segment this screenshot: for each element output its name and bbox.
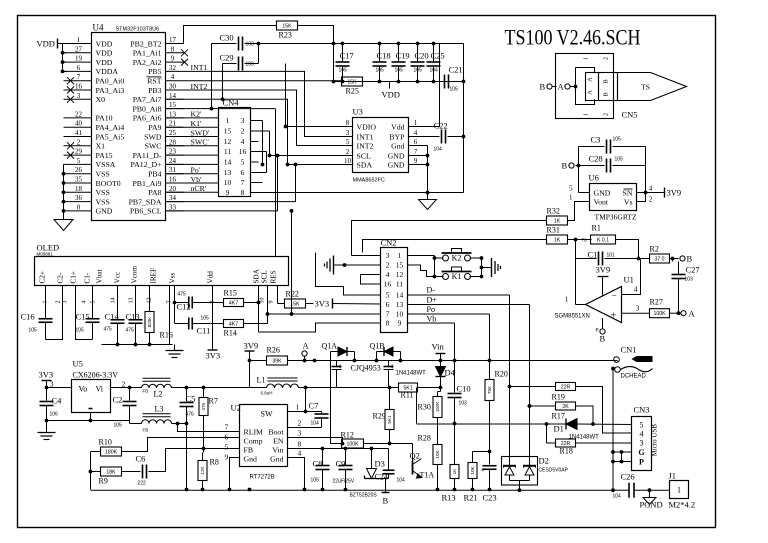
svg-text:29: 29: [75, 148, 83, 156]
svg-text:14: 14: [111, 298, 117, 304]
ground below U4: [54, 220, 73, 231]
svg-text:D3: D3: [375, 459, 385, 469]
svg-text:RT7272B: RT7272B: [250, 475, 275, 481]
svg-text:X1: X1: [96, 142, 106, 151]
svg-text:CN4: CN4: [223, 98, 240, 108]
wire mosfet drains to L1 node: [336, 373, 338, 388]
svg-text:105: 105: [76, 328, 85, 334]
wire C1 to R2: [639, 258, 650, 260]
svg-text:Vb: Vb: [427, 315, 437, 324]
svg-text:K2: K2: [452, 254, 462, 263]
svg-text:35: 35: [75, 176, 83, 184]
svg-text:28: 28: [169, 138, 177, 146]
svg-text:1K: 1K: [554, 237, 561, 243]
svg-text:10: 10: [224, 178, 232, 187]
svg-text:SGM8551XN: SGM8551XN: [555, 314, 590, 320]
wire R17 right: [576, 406, 594, 424]
svg-text:A: A: [587, 90, 594, 95]
svg-text:24: 24: [169, 157, 177, 165]
wire C30 row: [212, 43, 237, 45]
svg-text:Vo: Vo: [79, 385, 88, 394]
svg-text:15K: 15K: [282, 23, 292, 29]
svg-text:16: 16: [75, 83, 83, 91]
wire CN2 pin5 row left: [316, 253, 381, 296]
3V3 net at R22: [306, 303, 314, 305]
svg-text:GND: GND: [96, 207, 113, 216]
svg-text:A: A: [689, 309, 696, 319]
svg-text:C9: C9: [336, 459, 346, 469]
svg-text:11: 11: [224, 147, 231, 156]
svg-text:5: 5: [91, 301, 97, 304]
svg-text:FB: FB: [143, 389, 149, 394]
wire R32 R31 right join: [568, 239, 592, 241]
CN2 3V3 pin6: [333, 303, 381, 306]
TVS D2 box: [502, 457, 538, 486]
svg-text:MMA8652FC: MMA8652FC: [353, 178, 385, 184]
svg-text:1K: 1K: [554, 218, 561, 224]
svg-text:C7: C7: [309, 401, 319, 411]
svg-text:2: 2: [604, 113, 610, 116]
IC U4 STM32F103T8U6 box: [92, 33, 166, 221]
svg-text:30: 30: [169, 83, 177, 91]
svg-text:101: 101: [607, 253, 616, 259]
svg-text:C28: C28: [589, 154, 603, 164]
svg-text:104: 104: [434, 147, 443, 153]
svg-text:Gnd: Gnd: [244, 455, 258, 464]
svg-text:41: 41: [75, 129, 83, 137]
svg-text:10: 10: [260, 298, 266, 304]
svg-text:12: 12: [396, 270, 404, 279]
svg-text:C3: C3: [591, 135, 601, 145]
resistor R14: [224, 320, 244, 328]
svg-text:16: 16: [384, 280, 392, 289]
svg-text:105: 105: [613, 137, 622, 143]
svg-text:2: 2: [241, 127, 245, 136]
svg-text:C2-: C2-: [57, 272, 65, 283]
svg-text:5: 5: [346, 138, 350, 146]
svg-text:T1A: T1A: [420, 471, 435, 480]
svg-text:C22: C22: [434, 121, 448, 131]
wire R12 row: [364, 443, 413, 445]
svg-text:GND: GND: [594, 189, 611, 198]
svg-text:104: 104: [311, 421, 320, 427]
wire U3 Gnd pins to ground: [423, 145, 428, 147]
D2 bottoms: [510, 480, 530, 482]
svg-text:10K: 10K: [435, 449, 440, 458]
svg-text:C1+: C1+: [70, 271, 78, 283]
svg-text:103: 103: [459, 401, 468, 407]
svg-text:D2: D2: [539, 456, 549, 466]
svg-text:15K: 15K: [290, 301, 300, 307]
svg-text:R29: R29: [373, 412, 386, 421]
svg-text:CX6206-3.3V: CX6206-3.3V: [73, 371, 119, 380]
svg-text:10K: 10K: [470, 465, 475, 474]
svg-text:FB: FB: [244, 446, 254, 455]
svg-text:INT1: INT1: [357, 132, 374, 141]
svg-text:4: 4: [339, 365, 342, 371]
svg-text:2: 2: [346, 148, 350, 156]
svg-text:DCHEAD: DCHEAD: [621, 374, 647, 380]
wire Po drop: [489, 314, 491, 361]
wire CN2 pin15 row to K1: [408, 265, 444, 277]
svg-text:1: 1: [569, 194, 573, 202]
svg-text:17: 17: [169, 36, 177, 44]
svg-text:12: 12: [224, 137, 232, 146]
svg-text:C21: C21: [449, 65, 463, 75]
svg-text:C29: C29: [220, 53, 234, 63]
svg-text:VSS: VSS: [96, 197, 110, 206]
svg-text:PA5_Ai5: PA5_Ai5: [96, 132, 125, 141]
svg-text:13: 13: [169, 110, 177, 118]
svg-text:G: G: [638, 448, 644, 457]
svg-text:C2: C2: [113, 395, 123, 405]
wire INT2 row: [184, 90, 353, 146]
svg-text:16: 16: [239, 147, 247, 156]
svg-text:M2*4.2: M2*4.2: [669, 500, 696, 510]
svg-text:Vin: Vin: [432, 342, 445, 352]
svg-text:26: 26: [75, 166, 83, 174]
svg-text:PA3_Ai3: PA3_Ai3: [96, 86, 125, 95]
svg-text:13: 13: [129, 298, 135, 304]
svg-text:37 0: 37 0: [654, 256, 664, 262]
IC U2 RT7272B box: [240, 405, 288, 467]
svg-text:9: 9: [226, 188, 230, 197]
button K2: [443, 255, 449, 261]
svg-text:5: 5: [640, 420, 644, 429]
PGND ground: [649, 490, 651, 497]
wires U4 to CN4 direct: [166, 117, 219, 119]
svg-text:R17: R17: [552, 412, 565, 421]
svg-text:PA7_Ai7: PA7_Ai7: [133, 95, 162, 104]
svg-text:1: 1: [584, 57, 590, 60]
wire Vb drop: [454, 323, 456, 361]
svg-text:6: 6: [414, 138, 418, 146]
svg-text:A: A: [303, 341, 310, 351]
svg-text:1: 1: [296, 403, 300, 412]
svg-text:Vss: Vss: [169, 273, 177, 284]
svg-text:VDD: VDD: [382, 90, 400, 100]
svg-text:150R: 150R: [435, 402, 440, 412]
svg-text:R25: R25: [346, 87, 359, 96]
svg-text:STM32F103T8U6: STM32F103T8U6: [116, 27, 160, 33]
wire PB7_SDA row 34: [166, 165, 296, 202]
svg-text:7: 7: [414, 148, 418, 156]
svg-text:1: 1: [584, 113, 590, 116]
svg-text:U3: U3: [353, 107, 363, 117]
svg-text:39K: 39K: [272, 358, 282, 364]
svg-text:5: 5: [77, 157, 81, 165]
wire R11 row: [343, 387, 399, 389]
wire D- drop: [509, 295, 511, 466]
svg-text:CN5: CN5: [622, 110, 638, 120]
svg-text:1: 1: [565, 295, 569, 304]
svg-text:B: B: [562, 161, 568, 171]
svg-text:R20: R20: [495, 370, 508, 379]
OLED SDA column: [258, 286, 260, 333]
svg-text:PA2_Ai2: PA2_Ai2: [133, 58, 162, 67]
svg-text:P: P: [639, 457, 644, 466]
svg-text:M00881: M00881: [37, 252, 54, 257]
svg-text:C26: C26: [621, 472, 635, 482]
svg-text:14: 14: [396, 291, 404, 300]
svg-text:e: e: [596, 326, 599, 334]
svg-text:C16: C16: [21, 312, 35, 322]
svg-text:IREF: IREF: [150, 268, 158, 284]
wire R20 to R21 C23: [473, 451, 490, 453]
svg-text:27: 27: [75, 45, 83, 53]
svg-text:10: 10: [396, 310, 404, 319]
svg-text:Vout: Vout: [594, 198, 609, 207]
svg-text:2K: 2K: [562, 404, 569, 410]
svg-text:U1: U1: [624, 275, 634, 285]
svg-text:14: 14: [224, 158, 232, 167]
svg-text:R28: R28: [418, 434, 431, 443]
resistor R9: [101, 467, 122, 476]
svg-text:222: 222: [138, 481, 147, 487]
connector CN3 box: [632, 417, 652, 471]
svg-text:9: 9: [171, 55, 175, 63]
resistor R25: [342, 77, 363, 86]
svg-text:CN1: CN1: [621, 345, 637, 355]
svg-text:14: 14: [169, 92, 177, 100]
svg-text:BOOT0: BOOT0: [96, 179, 121, 188]
svg-text:D1: D1: [554, 424, 564, 434]
svg-text:475: 475: [178, 292, 187, 298]
svg-text:CN2: CN2: [381, 238, 397, 248]
svg-text:5: 5: [225, 443, 229, 452]
IC U6 TMP36GRTZ box: [590, 184, 637, 211]
wire C29 left down: [222, 64, 224, 100]
svg-text:4: 4: [386, 270, 390, 279]
svg-text:U6: U6: [589, 173, 599, 183]
OLED RES column to R22: [277, 286, 279, 304]
U1 negative supply to B: [602, 318, 604, 329]
svg-text:SN: SN: [623, 189, 633, 198]
svg-text:7: 7: [77, 73, 81, 81]
svg-text:3: 3: [640, 438, 644, 447]
wires R15 to SDA column: [244, 302, 259, 304]
display OLED box: [35, 257, 289, 286]
svg-text:SCL: SCL: [261, 270, 269, 283]
svg-text:1: 1: [226, 116, 230, 125]
wire SCL row to U3: [270, 155, 353, 157]
svg-text:4: 4: [649, 185, 653, 193]
svg-text:PA9: PA9: [148, 123, 161, 132]
svg-text:2: 2: [649, 196, 653, 204]
svg-text:22: 22: [75, 110, 83, 118]
wire cap rail: [259, 43, 464, 45]
svg-text:105: 105: [450, 87, 459, 93]
svg-text:PA11_D-: PA11_D-: [133, 151, 162, 160]
svg-text:25: 25: [169, 129, 177, 137]
svg-text:Comp: Comp: [244, 437, 263, 446]
svg-text:SWC': SWC': [191, 138, 210, 147]
svg-text:13: 13: [224, 168, 232, 177]
svg-text:PB5: PB5: [148, 67, 162, 76]
svg-text:9: 9: [398, 319, 402, 328]
svg-text:J1: J1: [669, 471, 677, 481]
CN4 riser c: [266, 152, 268, 173]
resistor R31: [547, 235, 568, 244]
svg-text:C18: C18: [377, 51, 391, 61]
wire PB6_SCL row 33: [166, 156, 278, 211]
svg-text:K1: K1: [452, 272, 462, 281]
wire rail y81: [334, 81, 464, 83]
svg-text:PA1_Ai1: PA1_Ai1: [133, 49, 162, 58]
wire R18 right to CN3: [576, 442, 632, 444]
wire 3V9 column to L1: [249, 361, 251, 388]
wire CN2 pin3 up: [352, 255, 381, 257]
svg-text:8: 8: [171, 45, 175, 53]
svg-text:23: 23: [169, 148, 177, 156]
IC U3 MMA8652FC box: [353, 118, 409, 173]
svg-text:16: 16: [169, 176, 177, 184]
svg-text:476: 476: [186, 412, 195, 418]
ground rail OLED: [102, 344, 173, 346]
svg-text:R18: R18: [560, 447, 573, 456]
svg-text:12K: 12K: [200, 465, 205, 474]
svg-text:103: 103: [685, 277, 694, 283]
CN5 contact box A: [586, 73, 599, 101]
svg-text:8: 8: [386, 319, 390, 328]
svg-text:B: B: [687, 254, 693, 264]
svg-text:SWD: SWD: [144, 132, 162, 141]
svg-text:U5: U5: [73, 359, 83, 369]
svg-text:−: −: [612, 291, 617, 301]
svg-text:103: 103: [246, 42, 255, 48]
ground triangle below U3: [427, 193, 429, 200]
U1 output pin 3 to R27: [622, 312, 650, 314]
svg-text:8: 8: [298, 440, 302, 449]
svg-text:1: 1: [77, 36, 81, 44]
wire U3 BYP to C22: [423, 136, 440, 138]
svg-text:PA8: PA8: [148, 188, 161, 197]
connector CN2 box: [381, 248, 408, 333]
svg-text:C19: C19: [396, 51, 410, 61]
svg-text:2: 2: [56, 301, 62, 304]
OLED Vdd column to 3V3: [212, 286, 214, 351]
svg-text:4: 4: [82, 301, 88, 304]
svg-text:SW: SW: [261, 410, 273, 419]
U4 VSS ground bus: [63, 164, 65, 219]
connector CN5 outer box: [556, 54, 614, 119]
svg-text:11: 11: [396, 280, 403, 289]
svg-text:4: 4: [634, 285, 638, 294]
CN5 contact box B: [599, 73, 618, 101]
ground symbol OLED: [174, 345, 176, 351]
OLED Vss pin down: [169, 286, 171, 345]
svg-text:5: 5: [569, 185, 573, 193]
svg-text:VDIO: VDIO: [357, 122, 377, 131]
svg-text:21: 21: [169, 120, 177, 128]
svg-text:40: 40: [75, 120, 83, 128]
svg-text:Boot: Boot: [268, 428, 284, 437]
svg-text:Micro USB: Micro USB: [651, 424, 659, 457]
wire R31 to CN2 pin2: [363, 240, 547, 253]
svg-text:PA12_D+: PA12_D+: [131, 160, 163, 169]
wire power rail Q1: [331, 360, 441, 362]
svg-text:RLIM: RLIM: [244, 428, 264, 437]
svg-text:4: 4: [414, 129, 418, 137]
CN4 riser a: [262, 121, 264, 165]
wire row15 to RES riser: [166, 108, 276, 110]
svg-text:22uF/25V: 22uF/25V: [333, 479, 355, 485]
svg-text:R23: R23: [279, 31, 292, 40]
wire row14 to U3 SDA: [166, 99, 353, 164]
svg-text:6: 6: [225, 433, 229, 442]
svg-text:Gnd: Gnd: [270, 455, 284, 464]
svg-text:1: 1: [414, 119, 418, 127]
wire CN2 pin1 row to K2: [408, 255, 435, 257]
svg-text:6: 6: [386, 300, 390, 309]
svg-text:Q1A: Q1A: [322, 342, 338, 351]
svg-text:15K: 15K: [347, 79, 357, 85]
ground left of CN2: [334, 264, 337, 266]
capacitor C23: [489, 452, 491, 465]
svg-text:6.8uH: 6.8uH: [261, 391, 273, 396]
svg-text:A: A: [587, 77, 594, 82]
CN3 ground column: [612, 369, 614, 491]
svg-text:CJQ4953: CJQ4953: [351, 364, 381, 373]
svg-text:B: B: [603, 92, 610, 97]
inductor L2: [142, 384, 172, 388]
svg-text:820K: 820K: [147, 316, 152, 328]
svg-text:9: 9: [414, 157, 418, 165]
svg-text:C27: C27: [686, 265, 700, 275]
svg-text:VDD: VDD: [96, 58, 113, 67]
svg-text:C2+: C2+: [39, 271, 47, 283]
wire C30 left down to row15: [211, 44, 213, 109]
U6 pin 2 Vs: [637, 193, 646, 202]
svg-text:3: 3: [241, 116, 245, 125]
svg-text:3: 3: [63, 301, 69, 304]
svg-text:8: 8: [241, 188, 245, 197]
wire K buttons right bus: [470, 257, 482, 259]
svg-text:D-: D-: [427, 286, 436, 295]
wire riser RES column: [275, 109, 277, 257]
svg-text:475: 475: [126, 328, 135, 334]
svg-text:4: 4: [391, 365, 394, 371]
ground below C4: [46, 421, 48, 431]
svg-text:B: B: [540, 82, 546, 92]
svg-text:VDDA: VDDA: [96, 67, 119, 76]
svg-text:PA6_Ai6: PA6_Ai6: [133, 114, 162, 123]
CN5 inner sleeve: [576, 68, 595, 105]
svg-text:36: 36: [75, 194, 83, 202]
svg-text:R30: R30: [418, 403, 431, 412]
svg-text:CESD5V0AP: CESD5V0AP: [539, 468, 569, 474]
svg-text:R14: R14: [224, 329, 237, 338]
wire R23 to RST row: [298, 26, 334, 82]
U1 pin 4 feedback: [622, 259, 641, 295]
svg-text:0: 0: [77, 203, 81, 211]
svg-text:D4: D4: [445, 368, 456, 378]
wire R10 left: [91, 451, 101, 453]
svg-text:K2': K2': [191, 110, 203, 119]
op-amp U1 SGM8551XN: [586, 287, 622, 323]
svg-text:15: 15: [224, 127, 232, 136]
svg-text:C1-: C1-: [84, 272, 92, 283]
svg-text:105: 105: [114, 423, 123, 429]
svg-text:PA15: PA15: [96, 151, 113, 160]
D2 diode left: [503, 465, 516, 467]
CN3 G P wires: [613, 451, 632, 453]
wire CN2 pin2 to ground: [337, 264, 381, 266]
svg-text:4: 4: [171, 73, 175, 81]
svg-text:K1': K1': [191, 119, 203, 128]
svg-text:2: 2: [298, 419, 302, 428]
svg-text:7: 7: [241, 178, 245, 187]
